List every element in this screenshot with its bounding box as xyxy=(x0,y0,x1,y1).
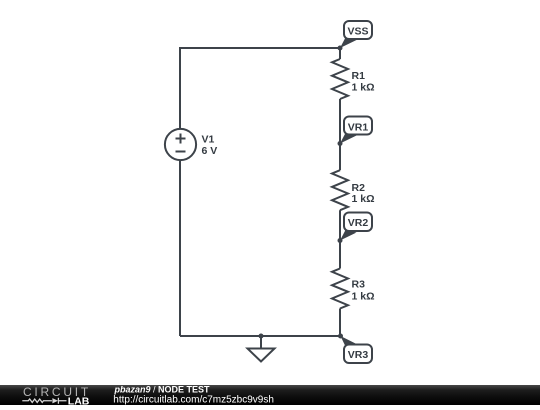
svg-text:LAB: LAB xyxy=(68,396,90,405)
svg-text:R2: R2 xyxy=(352,182,366,194)
svg-text:1 kΩ: 1 kΩ xyxy=(352,193,375,205)
svg-text:6 V: 6 V xyxy=(202,145,218,157)
svg-text:1 kΩ: 1 kΩ xyxy=(352,290,375,302)
svg-text:V1: V1 xyxy=(202,134,215,146)
svg-text:pbazan9 / NODE TEST: pbazan9 / NODE TEST xyxy=(114,385,211,395)
svg-text:R3: R3 xyxy=(352,279,366,291)
svg-text:VR1: VR1 xyxy=(348,121,369,133)
svg-text:VSS: VSS xyxy=(347,26,368,38)
svg-text:R1: R1 xyxy=(352,70,366,82)
svg-text:1 kΩ: 1 kΩ xyxy=(352,82,375,94)
svg-text:VR3: VR3 xyxy=(348,349,369,361)
svg-text:VR2: VR2 xyxy=(348,217,369,229)
svg-text:http://circuitlab.com/c7mz5zbc: http://circuitlab.com/c7mz5zbc9v9sh xyxy=(113,394,274,405)
